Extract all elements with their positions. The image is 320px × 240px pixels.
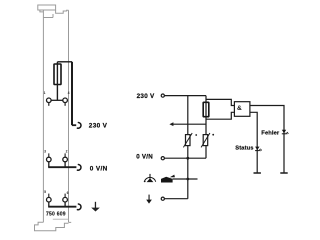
thick bus line: [71, 62, 73, 125]
junction dot flag: [186, 178, 189, 181]
svg-text:0 V/N: 0 V/N: [136, 153, 153, 160]
flag contact symbol: [161, 175, 175, 183]
varistor R1: [186, 135, 191, 146]
svg-text:4: 4: [68, 91, 70, 95]
wire circle 3 stub: [48, 162, 50, 167]
svg-text:5: 5: [44, 190, 46, 194]
contact circle 2: [63, 157, 68, 162]
svg-text:&: &: [237, 105, 242, 112]
terminal circle N: [161, 157, 164, 160]
fuse F1 (module): [54, 64, 61, 85]
terminal circle L: [161, 94, 164, 97]
svg-text:0 V/N: 0 V/N: [90, 165, 108, 172]
svg-text:750 609: 750 609: [46, 212, 66, 218]
jumper contact wire: [173, 123, 206, 125]
wire contact 4 lower stub: [64, 103, 66, 106]
wire L vertical with fuse: [205, 96, 207, 135]
earth arrow symbol (schematic): [146, 195, 152, 204]
bar Fehler: [280, 172, 287, 174]
wire bus to 230V clamp: [72, 124, 76, 126]
wire branch to AND bottom: [206, 112, 234, 119]
module left edge: [42, 10, 44, 222]
AND gate box U1: [234, 102, 250, 117]
jumper contact arrow: [169, 122, 173, 126]
wire circle 3 upper stub: [48, 153, 50, 157]
wire circle 6 stub: [64, 202, 66, 207]
wire 0V/N row: [48, 166, 76, 168]
varistor R2 diagonal: [201, 133, 210, 147]
varistor R1 dot: [195, 134, 197, 136]
svg-text:230 V: 230 V: [137, 93, 155, 100]
LED Status: [255, 147, 262, 152]
LED Fehler: [282, 130, 289, 135]
svg-text:1: 1: [44, 91, 46, 95]
earth arrow symbol (module): [91, 202, 100, 212]
wire contact 1 lower stub: [48, 103, 50, 106]
module bottom inner line: [53, 218, 69, 220]
bar Status: [254, 172, 261, 174]
wire circle 2 upper stub: [64, 153, 66, 157]
svg-text:3: 3: [44, 149, 46, 153]
wire L top: [164, 95, 206, 97]
wire varistor R2 bottom: [205, 146, 207, 159]
svg-text:230 V: 230 V: [89, 123, 108, 130]
module right edge: [68, 10, 70, 222]
wire circle 5 upper stub: [48, 194, 50, 198]
wire N net vertical: [164, 96, 187, 199]
clamp arc earth: [77, 204, 81, 210]
wire circle 6 upper stub: [64, 194, 66, 198]
contact circle 1: [47, 98, 52, 103]
wire N horizontal: [164, 157, 206, 159]
module top left jog: [40, 10, 44, 12]
svg-text:Fehler: Fehler: [261, 130, 280, 136]
module bottom foot: [35, 222, 72, 230]
module inner ledge: [43, 14, 53, 18]
fuse F2 (schematic): [203, 102, 209, 116]
wire fuse through line: [56, 62, 58, 101]
rail gauge symbol: [144, 174, 156, 182]
wire flag line: [173, 178, 198, 180]
svg-text:Status: Status: [235, 145, 253, 151]
module top step profile: [56, 10, 69, 13]
varistor R1 diagonal: [183, 133, 192, 147]
varistor R2: [203, 135, 208, 146]
wire earth row: [48, 206, 76, 208]
contact circle 5: [47, 197, 52, 202]
wire contacts 1-4 connector: [51, 99, 63, 101]
wire branch to AND top: [206, 99, 234, 105]
junction dot N: [186, 157, 189, 160]
wire Status: [250, 112, 257, 173]
wire circle 2 stub: [64, 162, 66, 167]
varistor R2 dot: [212, 134, 214, 136]
wire Fehler: [250, 106, 284, 174]
contact circle 4: [63, 98, 68, 103]
terminal circle PE: [161, 197, 164, 200]
wire fuse top to bus: [57, 61, 72, 63]
contact circle 6: [63, 197, 68, 202]
svg-text:6: 6: [67, 191, 69, 195]
clamp arc 0V/N: [77, 164, 81, 170]
contact circle 3: [47, 157, 52, 162]
wire circle 5 stub: [48, 202, 50, 207]
svg-text:2: 2: [66, 150, 68, 154]
clamp arc 230V: [77, 122, 81, 128]
module outline top bar: [38, 5, 56, 10]
